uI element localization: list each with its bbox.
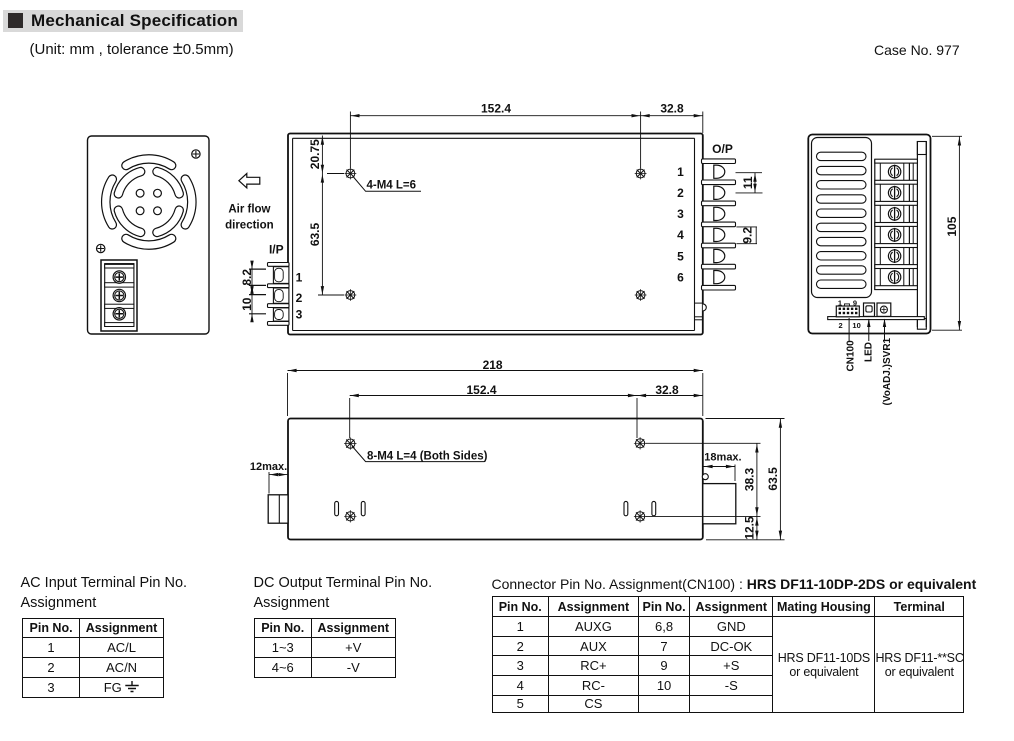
svg-text:1: 1 [677,165,684,179]
svg-text:218: 218 [483,358,503,372]
svg-text:63.5: 63.5 [308,222,322,246]
svg-text:CN100: CN100 [846,340,857,372]
svg-text:4-M4 L=6: 4-M4 L=6 [367,180,417,192]
svg-text:2: 2 [677,186,684,200]
svg-text:5: 5 [677,249,684,263]
svg-text:6: 6 [677,270,684,284]
svg-text:4: 4 [677,228,684,242]
svg-text:Air flow: Air flow [228,203,270,215]
svg-text:8-M4 L=4 (Both Sides): 8-M4 L=4 (Both Sides) [367,450,488,462]
svg-text:152.4: 152.4 [481,101,511,115]
svg-text:LED: LED [863,342,874,362]
svg-text:1: 1 [838,299,842,308]
svg-text:direction: direction [225,219,274,231]
svg-text:10: 10 [852,321,860,330]
svg-text:12.5: 12.5 [743,516,757,540]
svg-text:1: 1 [296,271,303,285]
svg-text:20.75: 20.75 [308,139,322,169]
svg-text:32.8: 32.8 [655,383,679,397]
svg-text:9.2: 9.2 [740,227,754,244]
svg-text:32.8: 32.8 [660,101,684,115]
svg-text:12max.: 12max. [250,461,287,473]
svg-text:63.5: 63.5 [766,467,780,491]
svg-text:10: 10 [240,297,254,311]
svg-text:8.2: 8.2 [240,269,254,286]
svg-text:3: 3 [677,207,684,221]
svg-text:O/P: O/P [712,142,733,156]
svg-text:2: 2 [296,291,303,305]
svg-text:I/P: I/P [269,243,284,257]
svg-text:(VoADJ.)SVR1: (VoADJ.)SVR1 [882,337,893,405]
svg-text:2: 2 [839,321,843,330]
svg-text:18max.: 18max. [704,452,741,464]
svg-text:38.3: 38.3 [743,467,757,491]
svg-text:11: 11 [741,176,755,189]
svg-text:105: 105 [945,216,959,236]
svg-text:3: 3 [296,308,303,322]
svg-text:9: 9 [853,299,857,308]
svg-text:152.4: 152.4 [466,383,496,397]
